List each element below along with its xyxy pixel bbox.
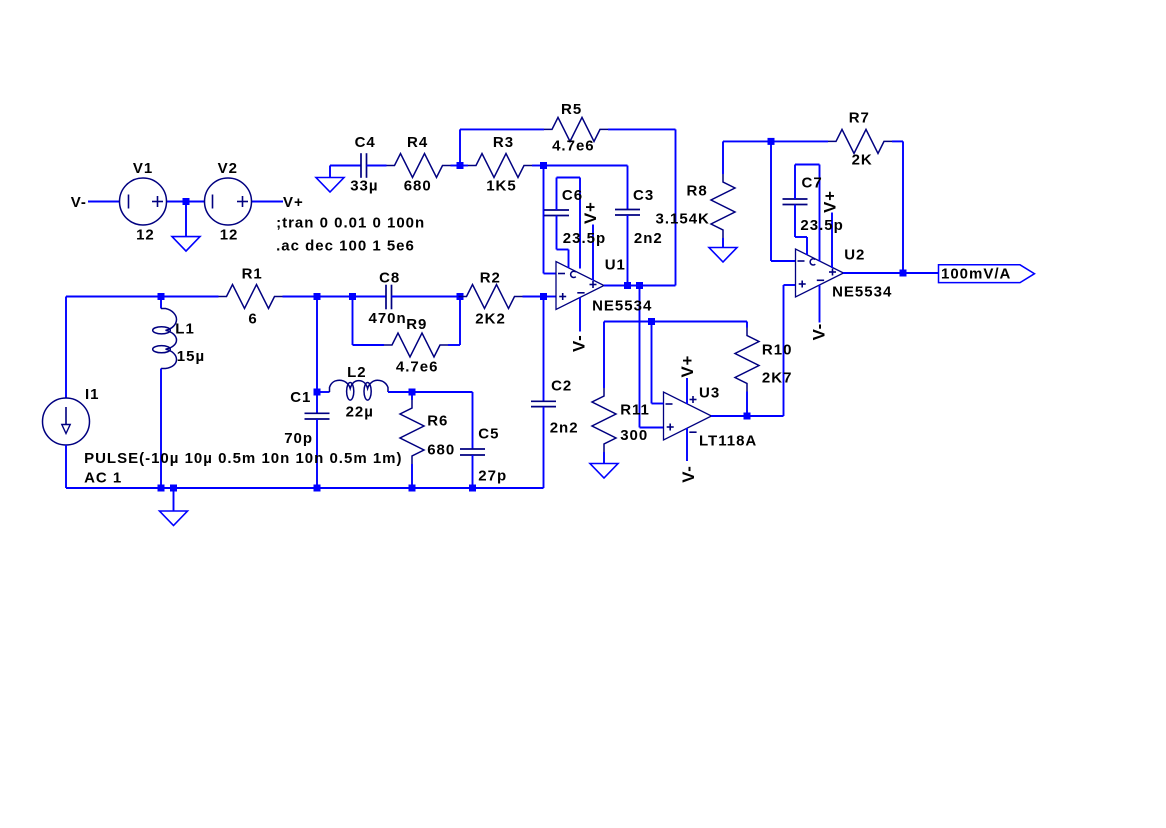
svg-text:6: 6 xyxy=(248,311,257,328)
svg-text:22µ: 22µ xyxy=(346,404,374,421)
svg-text:.ac dec 100 1 5e6: .ac dec 100 1 5e6 xyxy=(276,238,415,255)
svg-text:2K: 2K xyxy=(852,151,873,168)
svg-text:U3: U3 xyxy=(699,384,720,401)
svg-text:R10: R10 xyxy=(762,342,793,359)
svg-text:4.7e6: 4.7e6 xyxy=(396,359,439,376)
svg-text:R5: R5 xyxy=(561,101,582,118)
svg-text:V+: V+ xyxy=(678,355,697,378)
svg-text:V+: V+ xyxy=(283,194,304,211)
svg-text:V-: V- xyxy=(679,465,698,482)
svg-text:12: 12 xyxy=(220,226,239,243)
svg-text:V+: V+ xyxy=(821,190,840,213)
svg-text:L1: L1 xyxy=(175,321,195,338)
svg-text:R7: R7 xyxy=(849,110,870,127)
svg-text:C3: C3 xyxy=(633,187,654,204)
svg-text:2n2: 2n2 xyxy=(550,420,579,437)
svg-text:R9: R9 xyxy=(406,316,427,333)
svg-text:12: 12 xyxy=(136,226,155,243)
svg-text:LT118A: LT118A xyxy=(699,432,757,449)
svg-text:C1: C1 xyxy=(290,389,311,406)
svg-text:300: 300 xyxy=(620,427,648,444)
svg-text:3.154K: 3.154K xyxy=(656,210,710,227)
svg-text:27p: 27p xyxy=(478,468,507,485)
svg-text:R1: R1 xyxy=(242,266,263,283)
svg-text:2K7: 2K7 xyxy=(762,370,793,387)
svg-text:R2: R2 xyxy=(480,270,501,287)
svg-text:C4: C4 xyxy=(355,134,376,151)
svg-text:R8: R8 xyxy=(687,182,708,199)
svg-text:R6: R6 xyxy=(427,412,448,429)
svg-text:V1: V1 xyxy=(133,160,153,177)
svg-text:1K5: 1K5 xyxy=(486,178,517,195)
svg-text:70p: 70p xyxy=(284,430,313,447)
svg-text:C6: C6 xyxy=(562,187,583,204)
svg-text:AC 1: AC 1 xyxy=(84,470,122,487)
svg-text:V2: V2 xyxy=(218,160,238,177)
svg-text:;tran 0 0.01 0 100n: ;tran 0 0.01 0 100n xyxy=(276,214,425,231)
svg-text:4.7e6: 4.7e6 xyxy=(552,138,595,155)
svg-text:C2: C2 xyxy=(551,377,572,394)
svg-text:23.5p: 23.5p xyxy=(563,230,606,247)
svg-text:R4: R4 xyxy=(407,134,428,151)
svg-text:C7: C7 xyxy=(802,174,823,191)
svg-text:V-: V- xyxy=(71,194,87,211)
svg-text:C8: C8 xyxy=(379,270,400,287)
svg-text:V-: V- xyxy=(569,335,588,352)
svg-text:100mV/A: 100mV/A xyxy=(941,265,1011,282)
svg-text:PULSE(-10µ 10µ 0.5m 10n 10n 0.: PULSE(-10µ 10µ 0.5m 10n 10n 0.5m 1m) xyxy=(84,450,402,467)
svg-text:NE5534: NE5534 xyxy=(832,284,892,301)
svg-text:23.5p: 23.5p xyxy=(800,217,843,234)
svg-text:R3: R3 xyxy=(493,134,514,151)
svg-text:33µ: 33µ xyxy=(350,178,378,195)
svg-text:U2: U2 xyxy=(844,247,865,264)
svg-text:R11: R11 xyxy=(620,402,650,419)
svg-text:U1: U1 xyxy=(605,257,626,274)
svg-text:2K2: 2K2 xyxy=(475,310,506,327)
svg-text:470n: 470n xyxy=(369,310,407,327)
svg-text:680: 680 xyxy=(404,178,432,195)
svg-text:V+: V+ xyxy=(581,201,600,224)
svg-text:NE5534: NE5534 xyxy=(592,297,652,314)
svg-text:V-: V- xyxy=(809,323,828,340)
svg-text:L2: L2 xyxy=(347,364,367,381)
svg-text:680: 680 xyxy=(427,442,455,459)
svg-text:I1: I1 xyxy=(85,386,100,403)
svg-text:C5: C5 xyxy=(478,425,499,442)
svg-text:2n2: 2n2 xyxy=(634,230,663,247)
svg-text:15µ: 15µ xyxy=(177,348,205,365)
